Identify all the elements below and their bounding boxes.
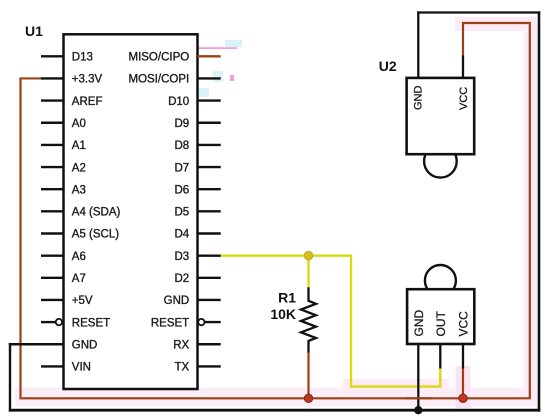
wire red patch over GND crossing on bottom red line <box>405 397 432 399</box>
svg-text:AREF: AREF <box>72 96 103 108</box>
pin D6 <box>198 188 221 190</box>
jpeg artifact cyan smudge b <box>213 71 223 82</box>
pin D3 <box>198 254 221 256</box>
svg-text:+5V: +5V <box>72 295 93 307</box>
wire black GND net right vertical <box>538 11 541 411</box>
svg-text:A0: A0 <box>72 118 86 130</box>
pin +3.3V <box>41 77 64 79</box>
U1 right pin labels <box>128 52 189 374</box>
svg-text:D5: D5 <box>174 207 189 219</box>
svg-text:U1: U1 <box>25 23 43 39</box>
pin VIN <box>41 365 64 367</box>
junction dot black at sensor GND <box>414 406 422 414</box>
svg-text:RESET: RESET <box>151 317 189 329</box>
pin MOSI/COPI <box>198 77 221 79</box>
U1 left pin labels <box>72 52 121 374</box>
U2 VCC black stub <box>462 56 464 79</box>
wire dark red R1 bottom lead to bottom red line <box>307 353 309 399</box>
pin TX <box>198 365 221 367</box>
wire black sensor GND pin down to bottom GND line (crosses over yellow) <box>417 344 419 410</box>
sensor U2 bump (bottom circle) <box>424 145 457 178</box>
pin +5V <box>41 299 64 301</box>
svg-text:MOSI/COPI: MOSI/COPI <box>128 74 189 86</box>
svg-text:A7: A7 <box>72 273 86 285</box>
sensor pin stub OUT <box>439 344 441 369</box>
svg-text:R1: R1 <box>278 290 296 306</box>
svg-text:A5 (SCL): A5 (SCL) <box>72 229 119 241</box>
pin D4 <box>198 232 221 234</box>
jpeg artifact pink band yellow bottom <box>343 379 449 393</box>
pin D10 <box>198 99 221 101</box>
jpeg artifact cyan smudge c <box>198 88 209 97</box>
junction dot red at sensor VCC <box>459 394 467 402</box>
jpeg artifact magenta line miso <box>198 47 237 49</box>
svg-text:GND: GND <box>412 310 426 337</box>
svg-text:OUT: OUT <box>434 311 448 337</box>
pin RESET left <box>41 321 56 323</box>
svg-text:+3.3V: +3.3V <box>72 74 103 86</box>
svg-text:A2: A2 <box>72 162 86 174</box>
pin RX <box>198 343 221 345</box>
jpeg artifact pink band bottom <box>15 388 540 407</box>
svg-text:10K: 10K <box>270 306 296 322</box>
pin A0 <box>41 122 64 124</box>
pin RESET right circle <box>198 319 204 325</box>
svg-text:D3: D3 <box>174 251 189 263</box>
sensor U2 body <box>407 78 475 154</box>
pin A1 <box>41 144 64 146</box>
svg-text:U2: U2 <box>379 58 397 74</box>
pin A2 <box>41 166 64 168</box>
svg-text:TX: TX <box>174 362 189 374</box>
pin A7 <box>41 277 64 279</box>
svg-text:A1: A1 <box>72 140 86 152</box>
wire black GND net top horizontal <box>417 11 540 13</box>
svg-text:D13: D13 <box>72 52 93 64</box>
wire yellow D3 net: from D3 stub right, down, right, up to sensor OUT <box>220 256 441 387</box>
junction dot yellow at R1 top / D3 wire <box>304 251 313 260</box>
pin GND right <box>198 299 221 301</box>
sensor pin stub VCC <box>462 344 464 369</box>
svg-text:MISO/CIPO: MISO/CIPO <box>128 52 189 64</box>
svg-text:GND: GND <box>413 86 425 111</box>
jpeg artifact pink band right <box>524 18 538 398</box>
pin D5 <box>198 210 221 212</box>
wire black GND net: U1.GND to the left <box>9 343 64 345</box>
svg-text:VCC: VCC <box>458 87 470 110</box>
svg-text:RX: RX <box>173 339 189 351</box>
pin A4 <box>41 210 64 212</box>
svg-text:A4 (SDA): A4 (SDA) <box>72 207 121 219</box>
svg-text:D6: D6 <box>174 184 189 196</box>
svg-text:VCC: VCC <box>457 311 471 337</box>
wire black GND net left vertical <box>9 343 11 412</box>
svg-text:VIN: VIN <box>72 362 91 374</box>
svg-text:GND: GND <box>72 339 98 351</box>
jpeg artifact magenta dot mosi <box>230 75 234 81</box>
pin RESET right <box>205 321 221 323</box>
pin D9 <box>198 122 221 124</box>
pin D2 <box>198 277 221 279</box>
svg-text:D10: D10 <box>168 96 189 108</box>
resistor R1 black leads and zigzag <box>301 287 316 352</box>
svg-text:D8: D8 <box>174 140 189 152</box>
pin MISO/CIPO red stub <box>198 55 221 57</box>
svg-text:A6: A6 <box>72 251 86 263</box>
IC U1 body <box>64 34 198 389</box>
svg-text:D2: D2 <box>174 273 189 285</box>
jpeg artifact pink band top right <box>455 17 536 31</box>
wire dark red sensor VCC pin to bottom red line <box>462 369 464 399</box>
svg-text:GND: GND <box>164 295 190 307</box>
pin A3 <box>41 188 64 190</box>
wire black GND net bottom horizontal <box>9 409 541 412</box>
U1 left pin stubs <box>41 56 64 366</box>
svg-text:D7: D7 <box>174 162 189 174</box>
jpeg artifact cyan smudge a <box>225 40 242 47</box>
pin A6 <box>41 254 64 256</box>
pin A5 <box>41 232 64 234</box>
wire yellow R1 top lead <box>307 256 309 288</box>
wire black GND net down to U2 GND pin <box>417 11 419 78</box>
pin D8 <box>198 144 221 146</box>
sensor U3 body <box>407 289 474 344</box>
svg-text:RESET: RESET <box>72 317 110 329</box>
pin D13 <box>41 55 64 57</box>
U1 right pin stubs <box>198 78 221 366</box>
junction dot red at R1 bottom <box>304 394 312 402</box>
jpeg artifact pink band sensor vcc <box>456 366 471 408</box>
svg-text:A3: A3 <box>72 184 86 196</box>
svg-text:D4: D4 <box>174 229 189 241</box>
sensor U3 bump (top circle) <box>425 265 456 296</box>
pin D7 <box>198 166 221 168</box>
pin AREF <box>41 99 64 101</box>
pin RESET left circle <box>56 319 62 325</box>
svg-text:D9: D9 <box>174 118 189 130</box>
